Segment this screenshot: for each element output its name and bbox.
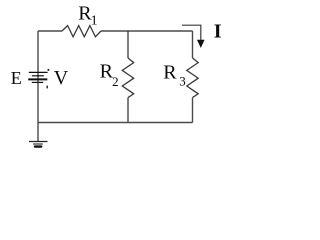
svg-text:2: 2 [112,74,119,89]
wire: right branch top (corner to R3) [192,31,194,58]
wire: middle branch bottom (R2 to bottom rail) [127,98,129,123]
resistor R2 zigzag [122,58,133,98]
wire: ground stem [37,123,39,142]
battery plus mark [47,69,49,71]
current arrow I hook [182,25,201,40]
wire: right branch bottom (R3 to bottom rail) [192,98,194,123]
svg-text:3: 3 [179,74,186,89]
battery minus mark [46,86,48,89]
svg-text:E: E [11,68,22,88]
svg-text:1: 1 [91,13,98,28]
wire: top middle from R1 to node above R2 [101,30,128,32]
wire: top-left horizontal from battery branch to R1 [38,30,62,32]
svg-text:V: V [54,67,69,89]
resistor R1 zigzag [62,26,101,37]
resistor R3 zigzag [187,58,198,98]
wire: middle branch top (node to R2) [127,31,129,58]
ground symbol [29,141,48,143]
battery E plates [29,71,48,73]
wire: left vertical (battery branch) [37,31,39,123]
wire: top right from node to top-right corner [128,30,193,32]
wire: bottom rail [38,122,193,124]
svg-text:I: I [214,21,222,43]
svg-text:R: R [163,62,177,84]
